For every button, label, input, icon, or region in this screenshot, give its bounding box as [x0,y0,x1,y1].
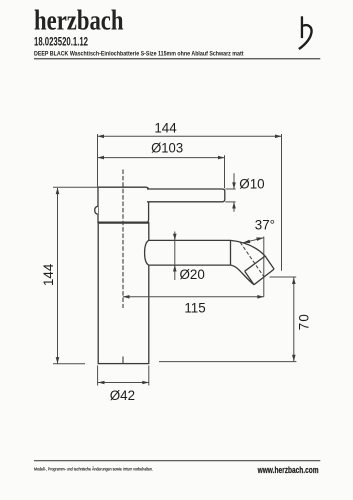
dim O103 line [98,157,225,159]
dim O10 top tick [225,188,235,190]
dim 37 double arrow line [243,238,264,243]
svg-text:Ø42: Ø42 [110,388,135,403]
handle base cylinder [98,187,149,222]
svg-text:Ø10: Ø10 [239,176,264,191]
spout joint vertical line [230,240,232,265]
dim 70 line [293,278,295,362]
dim O20 line [174,232,176,281]
svg-text:37°: 37° [255,218,275,233]
arrow 70 down [292,355,296,362]
dim 144 left top extension [53,186,97,188]
arrow O103 right [218,156,225,160]
dim O10 bottom tick [225,201,235,203]
aerator dashed centerline [240,242,264,276]
dim 70 top extension [270,276,297,278]
dim O10 upper line [233,173,235,189]
arrow 70 up [292,278,296,285]
handle/body joint thick line [98,221,149,223]
header h-mark bar [301,16,303,38]
arrow O103 left [98,156,105,160]
arrow O20 up [173,265,177,272]
spout bend bottom curve [230,265,254,285]
arrow 115 left [123,295,130,299]
dim O42 left extension [97,366,99,386]
svg-text:144: 144 [154,120,177,135]
arrow 115 right [257,295,264,299]
svg-text:Ø20: Ø20 [180,267,205,282]
arrowheads [56,135,296,385]
lever bar [147,189,225,202]
dim O10 lower line [233,202,235,212]
aerator joint line [245,256,265,271]
dim 144 left bottom extension [53,363,85,365]
arrow 144 top left [98,135,105,139]
spout left cap [145,240,149,265]
arrow O20 down [173,234,177,241]
spout bend top curve [231,240,266,256]
body centerline dashed [122,170,124,309]
svg-text:www.herzbach.com: www.herzbach.com [257,465,319,475]
spout silhouette [145,240,275,284]
spout bottom edge [149,264,231,266]
header rule [34,58,320,59]
dim 144 top right extension [281,134,283,271]
svg-text:Modell-, Programm- und technis: Modell-, Programm- und technische Änderu… [34,465,153,471]
body cylinder [98,223,149,364]
dim 144 left line [57,188,59,364]
dim O103 right extension [224,155,226,188]
arrow O42 left [98,381,105,385]
arrow 144 left up [56,188,60,195]
spout tip outlet face [254,269,274,285]
body bottom centerline dash [122,357,124,364]
dimension labels [41,120,311,403]
dim 115 line [123,296,264,298]
svg-text:115: 115 [184,301,205,316]
dim O42 right extension [148,366,150,386]
dim O42 line [98,382,149,384]
arrow O42 right [142,381,149,385]
handle left bump [95,206,98,214]
arrow O10 down [232,182,236,189]
arrow O10 up [232,202,236,209]
svg-text:70: 70 [297,313,312,330]
svg-text:herzbach: herzbach [34,6,124,37]
spout tip face top edge [265,256,274,269]
dim 144 top left extension [97,134,99,187]
dim 115 right extension through tip [263,237,265,297]
header h-mark hook [299,25,312,49]
svg-text:DEEP BLACK Waschtisch-Einlochb: DEEP BLACK Waschtisch-Einlochbatterie S-… [34,51,244,58]
svg-text:144: 144 [41,263,56,286]
spout top edge [149,239,231,241]
footer rule [34,459,320,462]
arrow 37 left [243,240,251,244]
arrow 37 right [256,237,264,241]
aerator bottom-left edge [245,271,254,285]
dim 70 bottom extension [159,361,296,363]
svg-text:18.023520.1.12: 18.023520.1.12 [34,37,88,49]
dim 144 top line [98,135,282,137]
arrow 144 top right [275,135,282,139]
arrow 144 left down [56,357,60,364]
svg-text:Ø103: Ø103 [151,140,183,155]
